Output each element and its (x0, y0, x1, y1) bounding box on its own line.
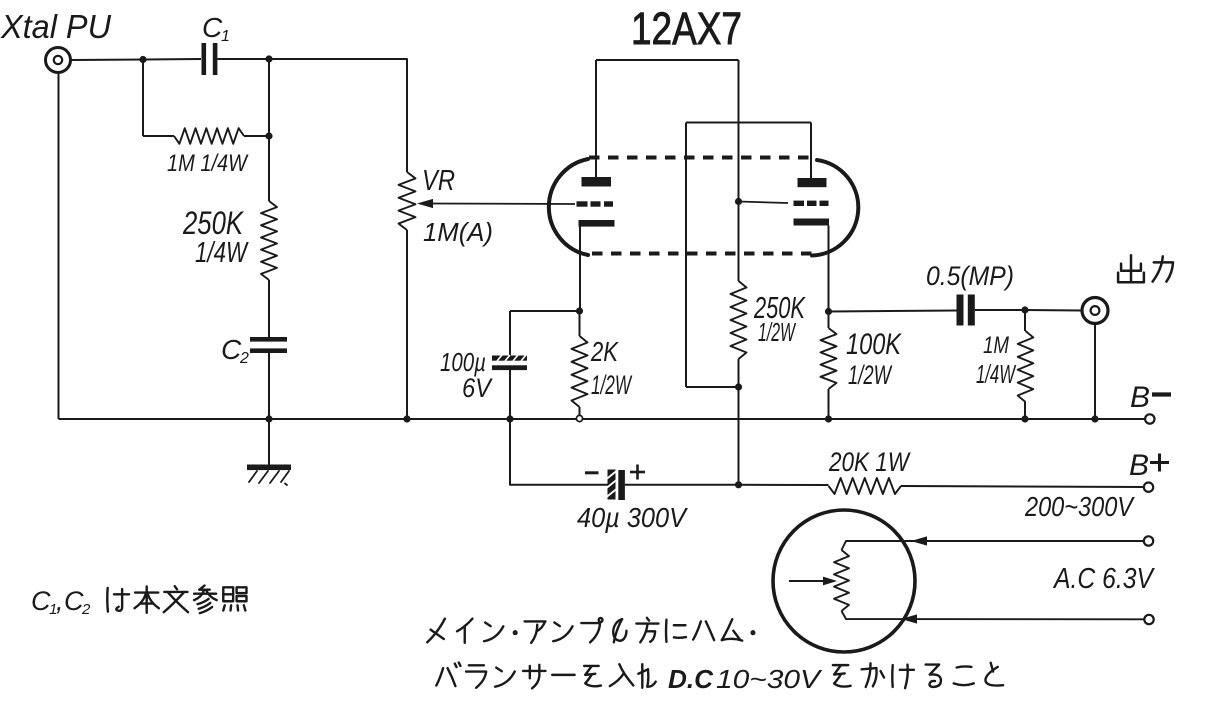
wire node H to C5 (829, 311, 957, 312)
svg-text:,: , (56, 586, 64, 616)
svg-text:1/2W: 1/2W (848, 360, 893, 390)
svg-text:20K 1W: 20K 1W (828, 447, 911, 477)
wire VR2 top lead to AC terminal (842, 541, 1144, 550)
tube U1 envelope left arc (549, 159, 588, 255)
node D junction at U1b grid (735, 198, 742, 205)
terminal AC top open circle (1144, 536, 1153, 545)
wire input jack to node A (71, 59, 143, 62)
svg-text:VR: VR (422, 165, 455, 197)
node R6 junction on bus (1021, 415, 1028, 422)
wire U1b plate link down to node E (685, 123, 687, 388)
wire R2 to C2 (268, 280, 270, 338)
wire C2 to ground bus (268, 353, 270, 419)
terminal B- open circle (1145, 414, 1154, 423)
wire C5 to node J (975, 309, 1025, 311)
label output (shutsuryoku) (1118, 255, 1144, 282)
resistor R5 100K 1/2W (821, 328, 837, 389)
wire node E down to B+ line (738, 387, 740, 485)
node G junction on bus (265, 415, 272, 422)
potentiometer VR 1M(A) (399, 172, 416, 230)
svg-text:A.C 6.3V: A.C 6.3V (1052, 563, 1155, 595)
svg-text:250K: 250K (182, 205, 244, 241)
svg-text:1/4W: 1/4W (195, 237, 249, 269)
wire U1b cathode lead down (828, 226, 830, 312)
wire R5 to bus (828, 389, 830, 419)
wire plate link down to node D (738, 60, 740, 281)
wire node A down to R1 (142, 60, 144, 137)
svg-text:12AX7: 12AX7 (631, 3, 742, 54)
svg-text:Xtal PU: Xtal PU (0, 8, 111, 45)
wire R6 to bus (1024, 402, 1026, 419)
node H junction (825, 308, 832, 315)
capacitor C4 40u 300V (608, 470, 616, 500)
wire C4 to node F (625, 484, 739, 486)
svg-text:10~30V: 10~30V (716, 664, 823, 694)
svg-text:2K: 2K (590, 336, 619, 367)
svg-text:200~300V: 200~300V (1024, 491, 1135, 522)
wire R4 to bus (579, 407, 581, 415)
wire U1a cathode lead down (579, 227, 581, 312)
label plus sign of C4 (630, 471, 645, 474)
triode U1a plate (582, 177, 612, 187)
resistor R4 2K 1/2W (572, 336, 588, 407)
svg-text:1M(A): 1M(A) (423, 217, 493, 247)
svg-text:C: C (221, 334, 242, 365)
resistor R6 1M 1/4W (1018, 331, 1034, 402)
wire VR2 bottom lead to AC terminal (842, 611, 1145, 619)
tube U1 envelope right arc (812, 160, 858, 256)
svg-text:B: B (1130, 381, 1150, 414)
svg-text:B: B (1129, 449, 1149, 482)
wire node K to C3 (510, 310, 580, 312)
capacitor C1 (202, 43, 207, 75)
svg-text:1M: 1M (983, 332, 1009, 359)
wire R3 bottom (738, 359, 740, 387)
svg-text:C: C (202, 12, 223, 43)
wire R1 to node B2 (244, 135, 269, 137)
wire node B to VR top (269, 59, 407, 172)
node F junction on B+ line (735, 481, 742, 488)
svg-text:C: C (31, 586, 51, 616)
note line2 wo kakeru koto (833, 665, 851, 686)
wire node A to C1 (143, 58, 201, 61)
wire node D to U1b grid (739, 202, 789, 204)
capacitor C3 100u 6V (492, 356, 527, 361)
resistor R1 1M 1/4W (174, 128, 244, 144)
capacitor C2 (250, 337, 287, 342)
svg-text:2: 2 (239, 350, 249, 367)
wire VR2 wiper arrow (789, 580, 824, 582)
terminal B+ open circle (1144, 483, 1153, 492)
resistor R7 20K 1W (829, 478, 902, 494)
capacitor C3 100u 6V top lead (509, 311, 511, 356)
svg-text:D.C: D.C (668, 664, 714, 694)
svg-text:1/2W: 1/2W (758, 317, 796, 347)
svg-text:6V: 6V (462, 373, 494, 403)
wire U1b plate top link (686, 122, 811, 124)
svg-text:100K: 100K (846, 328, 903, 361)
svg-text:1M 1/4W: 1M 1/4W (167, 150, 249, 177)
wire to resistor R1 (143, 135, 174, 137)
wire B- bus (59, 418, 1146, 420)
svg-text:1/2W: 1/2W (591, 370, 633, 400)
wire node E link (686, 386, 739, 388)
svg-text:1: 1 (221, 28, 230, 45)
triode U1a cathode (579, 220, 615, 227)
resistor R3 250K 1/2W (731, 281, 747, 359)
node J junction (1021, 306, 1028, 313)
resistor R6 1M 1/4W top lead (1024, 310, 1026, 331)
triode U1b cathode (794, 219, 830, 226)
wire C3 to bus (509, 370, 511, 419)
label minus sign of C4 (585, 471, 599, 474)
output jack J2 (1082, 298, 1108, 324)
node C3 junction on bus (506, 415, 513, 422)
wire VR bottom to bus (406, 230, 408, 419)
wire node K to R4 (579, 311, 581, 336)
hum balancer potentiometer VR2 (834, 550, 849, 611)
svg-text:1/4W: 1/4W (976, 359, 1017, 389)
node R4 small circle on bus (576, 415, 582, 421)
tube U1 envelope bottom dashed (592, 252, 815, 256)
node E junction (735, 383, 742, 390)
wire C3 node down to B+ line (510, 419, 608, 485)
node B2 junction (265, 132, 272, 139)
arrow on AC top wire (911, 536, 927, 545)
ground symbol (268, 419, 270, 466)
wire node B down to R2 (268, 59, 270, 201)
node A junction (139, 56, 146, 63)
triode U1a grid dashes (577, 201, 588, 206)
node R5 junction on bus (825, 415, 832, 422)
wire output jack to bus (1094, 324, 1096, 420)
wire C1 to node B (218, 58, 270, 60)
wire node F to R7 (739, 484, 829, 486)
node J2 junction on bus (1091, 415, 1098, 422)
node B junction (265, 55, 272, 62)
capacitor C5 0.5(MP) (957, 295, 964, 326)
wire input jack down lead (58, 73, 60, 420)
triode U1b grid dashes (794, 201, 805, 206)
input jack J1 Xtal PU (46, 48, 71, 73)
arrow on AC bottom wire (901, 614, 917, 623)
node VR junction on bus (403, 415, 410, 422)
tube U1 envelope top dashed (589, 156, 817, 160)
svg-text:C: C (64, 586, 84, 616)
triode U1b plate (798, 178, 827, 187)
hum balancer envelope circle (773, 510, 915, 652)
wiper arrow of VR to grid wire (430, 203, 575, 206)
resistor R2 250K 1/4W (261, 201, 277, 280)
svg-text:0.5(MP): 0.5(MP) (926, 261, 1014, 291)
node K junction (576, 307, 583, 314)
svg-text:2: 2 (81, 601, 91, 618)
svg-text:40µ 300V: 40µ 300V (577, 502, 688, 533)
note line1 main amp hum balancer (427, 619, 445, 643)
wire node J to output jack (1025, 309, 1082, 312)
resistor R5 100K 1/2W top lead (828, 312, 830, 329)
terminal AC bottom open circle (1144, 615, 1153, 624)
wire U1b plate lead up (810, 123, 812, 179)
note line2 balancer DC10-30V (436, 663, 460, 687)
wire U1a plate top link (596, 59, 739, 61)
wire R7 to B+ terminal (901, 486, 1144, 487)
wire U1a plate lead up (595, 60, 597, 177)
